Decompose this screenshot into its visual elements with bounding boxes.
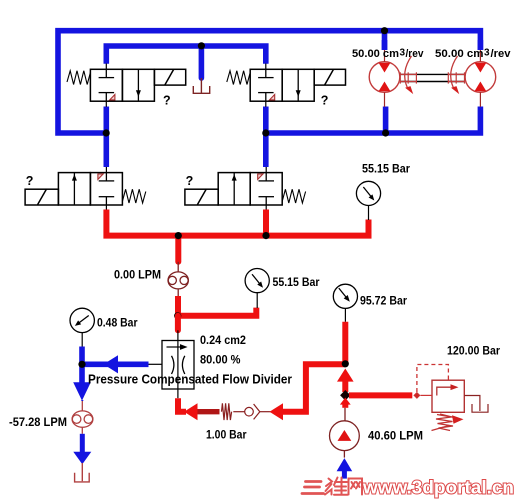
valve V3 position indicator triangle (98, 174, 103, 179)
svg-text:55.15 Bar: 55.15 Bar (362, 162, 410, 176)
wire red pressure manifold (106, 210, 368, 236)
red flow arrow up big (337, 369, 354, 382)
valve V4 closed port symbols (259, 173, 275, 205)
valve V4 body (middle right, rotated 2/2 solenoid valve) (185, 173, 282, 205)
flow meter FM2 -57.28 LPM (72, 401, 93, 434)
wire blue below FM2 (80, 434, 85, 452)
wire red relief feed (349, 392, 412, 398)
svg-text:0.48 Bar: 0.48 Bar (97, 316, 138, 330)
valve V2 closed port symbols (258, 69, 274, 101)
svg-text:1.00 Bar: 1.00 Bar (206, 428, 247, 442)
svg-text:80.00 %: 80.00 % (200, 353, 241, 367)
junction dot pump riser (342, 360, 349, 367)
valve V4 flow arrow up (233, 173, 235, 205)
gauge PG4 95.72 Bar (344, 308, 346, 321)
valve V3 spring (122, 189, 145, 203)
svg-text:-57.28 LPM: -57.28 LPM (9, 415, 67, 429)
wire blue tank branch stub (199, 46, 205, 78)
junction dot divider top (174, 312, 181, 319)
valve V1 position indicator triangle (110, 95, 115, 100)
svg-text:95.72 Bar: 95.72 Bar (360, 294, 407, 308)
junction dot motor M1 bottom (382, 129, 389, 136)
svg-text:120.00 Bar: 120.00 Bar (447, 344, 500, 358)
wire red divider bottom elbow (178, 398, 186, 412)
tank T2 bottom left (75, 463, 90, 482)
valve V1 spring (67, 71, 90, 85)
valve V2 flow arrow (297, 70, 299, 102)
gauge PG1 55.15 Bar top (368, 206, 370, 220)
wire red pump riser upper (342, 322, 348, 365)
valve V3 body (middle left, rotated 2/2 solenoid valve) (25, 173, 122, 205)
wire blue V2 bottom to V4 top (263, 107, 269, 168)
wire blue second manifold to valve V1 and V2 tops (106, 46, 265, 64)
valve V2 body (top right 2/2 solenoid valve) (250, 69, 345, 101)
junction dot blue bypass (78, 361, 85, 368)
shaft between motors (400, 74, 465, 81)
relief valve RV1 drain to tank (464, 396, 488, 413)
valve V1 flow arrow (137, 70, 139, 102)
junction dot V2 line return (262, 129, 269, 136)
wire red stub to FM3 (342, 404, 348, 408)
wire blue V1 bottom to V3 top (104, 107, 110, 168)
shaft coupling marks red (400, 72, 464, 83)
motor M1 hydraulic motor circle (369, 62, 400, 93)
gauge PG3 0.48 Bar (81, 333, 83, 347)
svg-text:50.00 cm: 50.00 cm (352, 48, 399, 60)
valve V4 spring (282, 189, 305, 203)
wire blue outer loop: top manifold, left vertical, bottom-left horizontal (58, 31, 480, 133)
junction dot manifold FM1 (175, 232, 182, 239)
motor M2 hydraulic motor circle (465, 62, 496, 93)
rotation arrow motor M2 (451, 56, 458, 88)
relief valve RV1 spring (432, 414, 457, 431)
wire red divider top stub (175, 316, 181, 331)
relief valve RV1 tap diamond (414, 393, 420, 399)
wire red FM1 to divider junction, gauge PG2 branch (178, 296, 256, 316)
wire blue tank line left: vertical with junction (79, 347, 85, 383)
svg-text:55.15 Bar: 55.15 Bar (273, 275, 320, 289)
motor M2 thin stems (479, 50, 481, 107)
junction dot V1 line left return (103, 129, 110, 136)
wire red V4 drop (263, 210, 269, 236)
tank T1 under top manifold (193, 78, 209, 93)
watermark 三维网 glyphs (302, 482, 324, 494)
svg-text:40.60 LPM: 40.60 LPM (368, 429, 423, 443)
red flow arrow left near divider (184, 403, 198, 420)
valve V1 body (top left 2/2 solenoid valve) (90, 69, 185, 101)
relief valve RV1 pilot dashed (417, 365, 449, 393)
valve V3 closed port symbols (99, 173, 115, 205)
svg-text:3: 3 (484, 48, 490, 59)
blue flow arrow down (73, 382, 91, 400)
svg-text:Pressure Compensated Flow Divi: Pressure Compensated Flow Divider (88, 372, 292, 387)
red flow arrow up small (340, 398, 351, 405)
gauge PG2 55.15 Bar mid (256, 293, 258, 308)
svg-text:/rev: /rev (406, 48, 425, 60)
wire red branch to flow meter FM1 (175, 236, 181, 262)
rotation arrow motor M1 (405, 56, 412, 88)
motor M2 triangles (475, 63, 487, 73)
valve V3 flow arrow up (73, 173, 75, 205)
wire blue motor return horizontal (266, 107, 481, 134)
junction dot top manifold tank branch (198, 42, 205, 49)
valve V2 position indicator triangle (270, 95, 275, 100)
flow meter FM3 40.60 LPM (330, 408, 360, 458)
svg-text:?: ? (321, 94, 329, 108)
svg-text:0.24 cm2: 0.24 cm2 (200, 333, 246, 347)
svg-text:www.3dportal.cn: www.3dportal.cn (362, 478, 514, 498)
flow divider FD1 box (149, 330, 195, 398)
wire blue tank drop left (81, 400, 83, 401)
wire red riser mid (342, 378, 348, 392)
valve V1 closed port symbols (99, 69, 115, 101)
flow meter FM1 0.00 LPM (168, 262, 188, 296)
wire blue divider bypass horizontal (82, 361, 149, 367)
valve V2 spring (227, 71, 250, 85)
svg-text:/rev: /rev (491, 48, 512, 60)
red flow arrow left near pump branch (270, 403, 284, 420)
svg-text:?: ? (186, 174, 194, 188)
blue arrow down to tank (73, 452, 91, 465)
wire red check line to pump riser (283, 364, 345, 411)
check valve CV1 1.00 Bar (198, 403, 271, 420)
blue flow arrow left (104, 355, 119, 373)
junction dot motor M1 top (381, 27, 388, 34)
svg-text:50.00 cm: 50.00 cm (435, 48, 484, 60)
svg-text:?: ? (26, 174, 34, 188)
valve V4 port stubs thin (265, 167, 267, 210)
valve V4 position indicator triangle (258, 174, 263, 179)
valve V3 port stubs thin (105, 167, 107, 210)
valve V1 port stubs thin (105, 64, 107, 107)
wire blue motor M1 stubs (382, 31, 388, 50)
svg-text:0.00 LPM: 0.00 LPM (114, 268, 161, 282)
wire blue motor stubs overlay (382, 40, 388, 50)
junction dot manifold V4 (262, 232, 269, 239)
svg-text:?: ? (163, 94, 171, 108)
valve V2 port stubs thin (265, 64, 267, 107)
relief valve RV1 (432, 380, 464, 412)
junction diamond pump node (340, 390, 350, 401)
motor M1 thin stems (384, 50, 386, 107)
blue suction arrow up (337, 458, 353, 471)
motor M1 triangles (379, 63, 391, 73)
